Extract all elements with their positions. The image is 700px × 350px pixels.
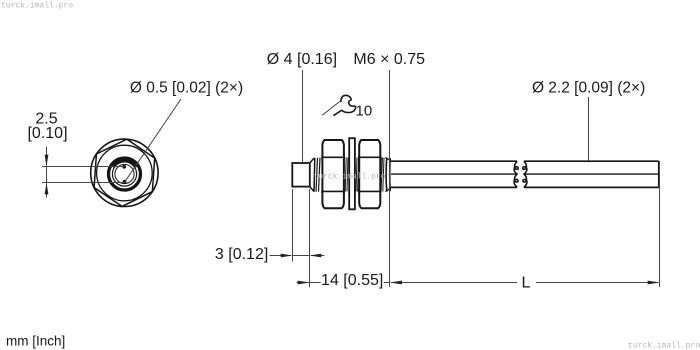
svg-text:turck.imall.pro: turck.imall.pro (628, 341, 700, 350)
svg-text:Ø 2.2 [0.09] (2×): Ø 2.2 [0.09] (2×) (532, 80, 645, 97)
svg-text:14 [0.55]: 14 [0.55] (321, 272, 383, 289)
svg-text:[0.10]: [0.10] (27, 125, 67, 142)
svg-text:turck.imall.pro: turck.imall.pro (314, 172, 386, 181)
svg-text:M6 × 0.75: M6 × 0.75 (353, 51, 425, 68)
svg-text:turck.imall.pro: turck.imall.pro (1, 2, 73, 11)
svg-text:mm [Inch]: mm [Inch] (6, 334, 65, 349)
svg-text:3 [0.12]: 3 [0.12] (215, 246, 268, 263)
svg-text:10: 10 (356, 103, 373, 120)
svg-text:Ø 4 [0.16]: Ø 4 [0.16] (267, 51, 337, 68)
svg-text:L: L (522, 275, 531, 292)
svg-text:Ø 0.5 [0.02] (2×): Ø 0.5 [0.02] (2×) (130, 80, 243, 97)
